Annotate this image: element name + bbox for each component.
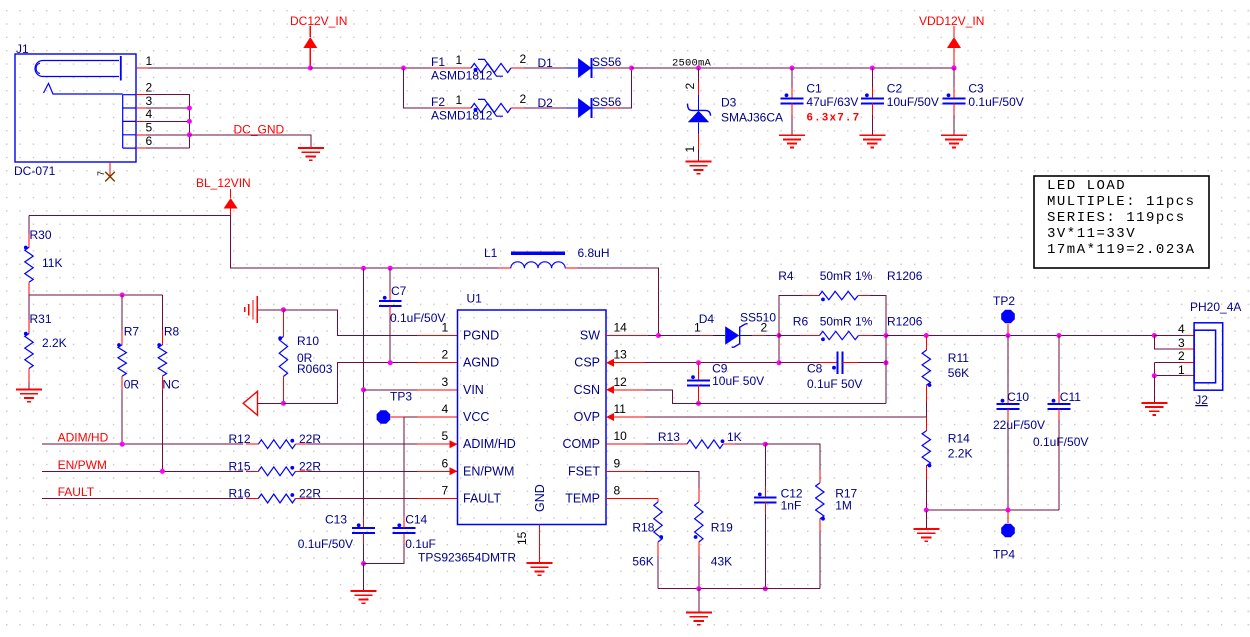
diode D2 SS56 bbox=[524, 107, 566, 109]
junction C3 on rail bbox=[952, 66, 957, 71]
junction C9 bottom bbox=[696, 401, 701, 406]
svg-text:GND: GND bbox=[533, 484, 547, 512]
wire SW to D4 bbox=[658, 335, 700, 337]
test point TP3 bbox=[377, 410, 391, 424]
op-amp U1 TPS923654DMTR body bbox=[458, 310, 607, 525]
resistor R8 NC bbox=[161, 330, 163, 345]
svg-text:C10: C10 bbox=[1007, 390, 1029, 404]
wire AGND net (R10 bottom to U1 pin2) bbox=[283, 363, 417, 404]
wire output rail bbox=[886, 335, 1154, 337]
svg-text:F1: F1 bbox=[431, 55, 445, 69]
svg-text:SERIES: 119pcs: SERIES: 119pcs bbox=[1047, 210, 1186, 226]
svg-text:56K: 56K bbox=[632, 555, 653, 569]
wire earth to R10 top bbox=[257, 309, 283, 311]
svg-text:NC: NC bbox=[162, 378, 180, 392]
svg-text:R12: R12 bbox=[229, 432, 251, 446]
svg-text:AGND: AGND bbox=[463, 356, 499, 370]
J1 pin 6 stub and wire bbox=[136, 147, 146, 149]
J1 pin 4 stub and wire bbox=[136, 120, 146, 122]
junction R14 bottom / ground bbox=[924, 508, 929, 513]
svg-text:R1206: R1206 bbox=[887, 269, 923, 283]
capacitor C8 0.1uF 50V bbox=[779, 362, 820, 364]
svg-text:ASMD1812: ASMD1812 bbox=[431, 109, 493, 123]
svg-text:C2: C2 bbox=[887, 82, 903, 96]
no-connect cross on J1 pin 7 bbox=[105, 172, 115, 182]
svg-text:0.1uF 50V: 0.1uF 50V bbox=[807, 377, 862, 391]
wire BL_12VIN rail bbox=[29, 216, 499, 269]
J1 pin 1 stub bbox=[136, 67, 148, 69]
svg-text:7: 7 bbox=[442, 484, 449, 498]
resistor R15 22R bbox=[246, 470, 258, 472]
svg-text:6.8uH: 6.8uH bbox=[578, 246, 610, 260]
wire L1 to SW bbox=[578, 268, 659, 335]
power port VDD12V_IN bbox=[953, 26, 955, 37]
U1 pin 7 stub bbox=[417, 498, 458, 500]
svg-text:3: 3 bbox=[146, 94, 153, 108]
svg-text:0.1uF/50V: 0.1uF/50V bbox=[298, 537, 353, 551]
svg-text:3: 3 bbox=[442, 375, 449, 389]
svg-text:EN/PWM: EN/PWM bbox=[58, 458, 107, 472]
resistor R30 11K bbox=[28, 216, 30, 235]
U1 pin 1 stub bbox=[417, 335, 458, 337]
junction node B bbox=[884, 333, 889, 338]
svg-text:6.3x7.7: 6.3x7.7 bbox=[806, 113, 860, 125]
ground C3 bbox=[941, 134, 967, 136]
capacitor C3 0.1uF/50V bbox=[953, 68, 955, 87]
svg-text:F2: F2 bbox=[431, 95, 445, 109]
power port DC12V_IN bbox=[309, 26, 311, 37]
junction EN/PWM bbox=[160, 469, 165, 474]
fuse F2 ASMD1812 bbox=[431, 107, 471, 109]
U1 pin 10 COMP stub bbox=[606, 443, 645, 445]
wire F2 branch down bbox=[404, 68, 432, 108]
svg-text:14: 14 bbox=[614, 321, 628, 335]
wire rail D1 junction to C3 bbox=[632, 67, 955, 69]
connector J2 PH20_4A body bbox=[1194, 323, 1223, 390]
resistor R4 50mR 1% bbox=[779, 296, 802, 336]
svg-text:SS510: SS510 bbox=[740, 311, 776, 325]
ground R31 bbox=[16, 389, 42, 391]
svg-text:EN/PWM: EN/PWM bbox=[463, 464, 514, 478]
wire J2 pin2 bbox=[1154, 361, 1182, 363]
J1 pin 5 stub and wire bbox=[136, 134, 146, 136]
svg-text:C11: C11 bbox=[1060, 390, 1081, 404]
svg-text:SS56: SS56 bbox=[592, 55, 622, 69]
svg-text:2: 2 bbox=[520, 92, 527, 106]
capacitor C11 0.1uF/50V bbox=[1058, 336, 1060, 393]
capacitor C12 1nF bbox=[764, 444, 766, 486]
junction R10 top bbox=[281, 307, 286, 312]
wire J1 pin1 to top rail bbox=[148, 67, 310, 69]
svg-text:C1: C1 bbox=[806, 82, 822, 96]
wire bottom output rail bbox=[926, 509, 1059, 511]
junction C11 top bbox=[1057, 333, 1062, 338]
svg-text:U1: U1 bbox=[467, 292, 483, 306]
junction C2 on rail bbox=[870, 66, 875, 71]
svg-text:CSP: CSP bbox=[574, 356, 600, 370]
svg-text:L1: L1 bbox=[484, 246, 498, 260]
junction C12 bottom bbox=[763, 586, 768, 591]
wire D4 to sense node A bbox=[766, 335, 779, 337]
svg-text:0.1uF/50V: 0.1uF/50V bbox=[390, 311, 445, 325]
svg-text:2: 2 bbox=[683, 83, 697, 90]
junction VIN branch on BL rail bbox=[361, 266, 366, 271]
LED LOAD note box bbox=[1034, 176, 1209, 268]
junction J1 bus pin4 bbox=[187, 119, 192, 124]
resistor R13 1K bbox=[645, 443, 674, 445]
svg-text:1: 1 bbox=[456, 93, 463, 107]
junction D3 bbox=[696, 66, 701, 71]
svg-text:FAULT: FAULT bbox=[58, 485, 95, 499]
svg-text:2: 2 bbox=[520, 52, 527, 66]
svg-text:4: 4 bbox=[442, 402, 449, 416]
U1 pin 2 stub bbox=[417, 362, 458, 364]
wire FSET to R19 bbox=[645, 471, 699, 488]
svg-text:DC_GND: DC_GND bbox=[234, 123, 285, 137]
svg-text:VCC: VCC bbox=[463, 410, 489, 424]
power arrow port at R10 bottom bbox=[243, 391, 257, 415]
svg-text:SMAJ36CA: SMAJ36CA bbox=[721, 111, 783, 125]
U1 pin 8 TEMP stub bbox=[606, 498, 645, 500]
svg-text:10: 10 bbox=[614, 429, 628, 443]
svg-text:1: 1 bbox=[146, 54, 153, 68]
wire pin2 to gnd bus bbox=[146, 95, 189, 148]
U1 pin 3 stub bbox=[417, 389, 458, 391]
wire J2 pin4 bbox=[1154, 335, 1182, 337]
junction R11 top bbox=[924, 333, 929, 338]
wire CSP row bbox=[645, 362, 779, 364]
svg-text:1nF: 1nF bbox=[781, 499, 802, 513]
svg-text:C13: C13 bbox=[325, 513, 347, 527]
svg-text:R11: R11 bbox=[948, 351, 969, 365]
ground C1 bbox=[779, 134, 805, 136]
svg-text:J2: J2 bbox=[1195, 393, 1208, 407]
junction COMP node bbox=[763, 442, 768, 447]
resistor R7 0R bbox=[121, 295, 123, 330]
net DC_GND wire bbox=[189, 135, 310, 148]
svg-text:2: 2 bbox=[1178, 349, 1185, 363]
junction ADIM/HD bbox=[120, 442, 125, 447]
svg-text:R31: R31 bbox=[30, 312, 52, 326]
svg-text:50mR 1%: 50mR 1% bbox=[820, 315, 873, 329]
resistor R19 43K bbox=[698, 488, 700, 502]
junction J2 ground node bbox=[1152, 373, 1157, 378]
capacitor C9 10uF 50V bbox=[698, 363, 700, 381]
junction VIN pin3 bbox=[361, 387, 366, 392]
wire arrow to R10 bottom bbox=[258, 402, 284, 404]
wire TP3 to U1 pin4 bbox=[391, 416, 405, 418]
svg-text:OVP: OVP bbox=[574, 410, 600, 424]
resistor R16 22R bbox=[246, 498, 258, 500]
net wire ADIM/HD bbox=[42, 443, 243, 445]
svg-text:17mA*119=2.023A: 17mA*119=2.023A bbox=[1047, 242, 1196, 258]
fuse F1 ASMD1812 bbox=[431, 67, 471, 69]
svg-text:ASMD1812: ASMD1812 bbox=[431, 69, 493, 83]
net wire FAULT bbox=[42, 498, 243, 500]
svg-text:PH20_4A: PH20_4A bbox=[1190, 300, 1241, 314]
svg-text:11K: 11K bbox=[42, 256, 62, 270]
svg-text:22uF/50V: 22uF/50V bbox=[993, 418, 1045, 432]
U1 pin 13 CSP stub with arrow bbox=[613, 362, 645, 364]
junction DC12V_IN on rail bbox=[308, 66, 313, 71]
svg-text:DC12V_IN: DC12V_IN bbox=[290, 14, 347, 28]
inductor L1 6.8uH bbox=[499, 267, 511, 269]
ground C2 bbox=[859, 134, 885, 136]
svg-text:R10: R10 bbox=[297, 334, 319, 348]
svg-text:MULTIPLE: 11pcs: MULTIPLE: 11pcs bbox=[1047, 194, 1196, 210]
resistor R10 0R R0603 bbox=[282, 310, 284, 337]
resistor R11 56K bbox=[925, 336, 927, 351]
capacitor C2 10uF/50V bbox=[871, 68, 873, 87]
junction CSP/C9 bbox=[696, 360, 701, 365]
wire J2 pin2-pin1 link bbox=[1153, 362, 1155, 375]
svg-text:4: 4 bbox=[146, 107, 153, 121]
svg-text:D3: D3 bbox=[721, 96, 737, 110]
svg-text:3: 3 bbox=[1178, 336, 1185, 350]
J1 center pin barrel symbol bbox=[35, 61, 119, 77]
wire C14 bottom to node bbox=[364, 544, 405, 564]
U1 pin 9 FSET stub bbox=[606, 470, 645, 472]
junction R19 bottom / ground bbox=[696, 586, 701, 591]
svg-text:2: 2 bbox=[442, 348, 449, 362]
ground output rail bbox=[925, 510, 927, 529]
svg-text:5: 5 bbox=[442, 429, 449, 443]
svg-text:15: 15 bbox=[515, 531, 529, 545]
J1 pin 3 stub and wire bbox=[136, 107, 146, 109]
wire D2 out up to D1 junction bbox=[618, 68, 632, 108]
svg-text:TP4: TP4 bbox=[993, 548, 1015, 562]
svg-text:0.1uF: 0.1uF bbox=[405, 537, 436, 551]
svg-text:11: 11 bbox=[614, 402, 627, 416]
junction C7 on BL rail bbox=[388, 266, 393, 271]
svg-text:2: 2 bbox=[146, 81, 153, 95]
wire VIN to U1 pin3 bbox=[364, 389, 418, 391]
svg-text:0R: 0R bbox=[124, 378, 140, 392]
svg-text:R19: R19 bbox=[711, 521, 733, 535]
svg-text:R8: R8 bbox=[164, 325, 180, 339]
ground analog rail bbox=[698, 589, 700, 613]
U1 pin 14 SW stub bbox=[606, 335, 648, 337]
wire R15 to U1 bbox=[308, 470, 417, 472]
resistor R17 1M bbox=[765, 444, 820, 470]
svg-text:PGND: PGND bbox=[463, 329, 499, 343]
junction R10 bottom bbox=[281, 401, 286, 406]
svg-text:7: 7 bbox=[96, 171, 106, 176]
wire node A down to CSP row bbox=[778, 336, 780, 363]
svg-text:43K: 43K bbox=[711, 555, 732, 569]
svg-text:BL_12VIN: BL_12VIN bbox=[196, 176, 251, 190]
svg-text:TPS923654DMTR: TPS923654DMTR bbox=[418, 551, 516, 565]
svg-text:C14: C14 bbox=[405, 513, 427, 527]
U1 pin 12 CSN stub with arrow bbox=[613, 389, 645, 391]
svg-text:R1206: R1206 bbox=[887, 315, 923, 329]
svg-text:2.2K: 2.2K bbox=[42, 336, 67, 350]
wire OVP to R11/R14 node bbox=[645, 416, 926, 418]
junction TP4 bbox=[1006, 508, 1011, 513]
svg-text:FAULT: FAULT bbox=[463, 492, 501, 506]
svg-text:1: 1 bbox=[683, 146, 697, 153]
resistor R14 2.2K bbox=[925, 417, 927, 431]
svg-text:R6: R6 bbox=[793, 315, 809, 329]
svg-text:R0603: R0603 bbox=[297, 362, 333, 376]
TP4 stub bbox=[1007, 510, 1009, 523]
svg-text:TEMP: TEMP bbox=[565, 492, 600, 506]
svg-text:SS56: SS56 bbox=[592, 95, 622, 109]
svg-text:2: 2 bbox=[761, 321, 768, 335]
svg-text:VDD12V_IN: VDD12V_IN bbox=[919, 14, 984, 28]
wire R13 to COMP node bbox=[735, 443, 765, 445]
wire R30/R31 node bbox=[29, 294, 162, 296]
svg-text:1M: 1M bbox=[835, 499, 852, 513]
capacitor C1 47uF/63V bbox=[791, 68, 793, 87]
wire J2 pin3 bbox=[1154, 336, 1182, 349]
junction CSP/A bbox=[777, 360, 782, 365]
svg-text:1: 1 bbox=[456, 53, 463, 67]
svg-text:2500mA: 2500mA bbox=[672, 58, 712, 70]
wire R12 to U1 bbox=[308, 443, 417, 445]
svg-text:FSET: FSET bbox=[568, 464, 600, 478]
svg-text:R18: R18 bbox=[632, 521, 654, 535]
TP2 stub bbox=[1007, 324, 1009, 336]
resistor R6 50mR 1% bbox=[779, 335, 800, 337]
junction D1/D2 bbox=[629, 66, 634, 71]
junction C13/C14 ground node bbox=[361, 561, 366, 566]
junction J1 bus pin5 bbox=[187, 132, 192, 137]
svg-text:COMP: COMP bbox=[563, 437, 601, 451]
ground J2 bbox=[1153, 376, 1155, 403]
svg-text:R14: R14 bbox=[948, 432, 970, 446]
svg-text:VIN: VIN bbox=[463, 383, 484, 397]
svg-text:10uF 50V: 10uF 50V bbox=[712, 374, 764, 388]
svg-text:56K: 56K bbox=[948, 366, 969, 380]
ground C13/C14 bbox=[363, 564, 365, 592]
svg-text:6: 6 bbox=[442, 456, 449, 470]
svg-text:C7: C7 bbox=[391, 284, 407, 298]
svg-text:5: 5 bbox=[146, 121, 153, 135]
J1 pin 2 stub bbox=[136, 94, 146, 96]
connector J1 (DC-071 barrel jack) body bbox=[15, 54, 136, 162]
junction SW node bbox=[656, 333, 661, 338]
svg-text:6: 6 bbox=[146, 134, 153, 148]
wire analog bottom rail bbox=[658, 588, 820, 590]
capacitor C10 22uF/50V bbox=[1007, 336, 1009, 393]
wire D1 out to junction bbox=[618, 67, 632, 69]
svg-text:D4: D4 bbox=[699, 312, 715, 326]
resistor R18 56K bbox=[654, 502, 662, 542]
ground (rotated) at R10 top bbox=[256, 296, 258, 323]
wire J2 pin1 bbox=[1154, 375, 1182, 377]
junction C7/AGND bbox=[388, 360, 393, 365]
svg-text:1: 1 bbox=[1178, 363, 1185, 377]
J1 spring contact bbox=[44, 83, 123, 94]
junction J2 feed bbox=[1152, 333, 1157, 338]
capacitor C14 0.1uF bbox=[403, 533, 405, 544]
svg-text:1: 1 bbox=[442, 321, 449, 335]
U1 pin 6 stub with arrow bbox=[417, 470, 458, 472]
U1 pin 5 stub with arrow bbox=[417, 443, 458, 445]
wire R8 branch bbox=[161, 295, 163, 330]
ground U1 pin15 bbox=[527, 562, 553, 564]
junction C8/B bbox=[884, 360, 889, 365]
svg-text:ADIM/HD: ADIM/HD bbox=[58, 431, 109, 445]
svg-text:R13: R13 bbox=[658, 430, 680, 444]
U1 pin 11 OVP stub with arrow bbox=[613, 416, 645, 418]
ground D3 bbox=[686, 161, 712, 163]
svg-text:TP2: TP2 bbox=[993, 294, 1015, 308]
svg-text:C8: C8 bbox=[807, 362, 823, 376]
svg-text:8: 8 bbox=[614, 484, 621, 498]
U1 pin 15 stub bbox=[539, 525, 541, 564]
J1 pin contact stack bbox=[123, 95, 136, 148]
wire top rail to F1 bbox=[310, 67, 431, 69]
svg-text:TP3: TP3 bbox=[390, 390, 412, 404]
junction J1 bus pin3 bbox=[187, 106, 192, 111]
svg-text:CSN: CSN bbox=[574, 383, 600, 397]
svg-text:9: 9 bbox=[614, 456, 621, 470]
svg-text:10uF/50V: 10uF/50V bbox=[887, 95, 939, 109]
svg-text:50mR 1%: 50mR 1% bbox=[820, 269, 873, 283]
wire PGND net (R10 top to U1 pin1) bbox=[283, 310, 417, 336]
svg-text:DC-071: DC-071 bbox=[14, 164, 56, 178]
svg-text:ADIM/HD: ADIM/HD bbox=[463, 437, 516, 451]
junction F2 branch bbox=[401, 66, 406, 71]
resistor R31 2.2K bbox=[28, 295, 30, 320]
svg-text:C3: C3 bbox=[968, 82, 984, 96]
svg-text:3V*11=33V: 3V*11=33V bbox=[1047, 226, 1136, 242]
junction R7 branch bbox=[120, 293, 125, 298]
junction C1 on rail bbox=[790, 66, 795, 71]
diode D4 SS510 bbox=[700, 335, 713, 337]
wire TEMP to R18 bbox=[645, 498, 658, 500]
svg-text:SW: SW bbox=[580, 329, 600, 343]
wire CSN row to node B bbox=[645, 390, 886, 404]
wire node B down bbox=[885, 336, 887, 404]
wire VIN vertical down to C13 bbox=[363, 268, 365, 516]
svg-text:J1: J1 bbox=[16, 42, 29, 56]
test point TP2 bbox=[1001, 310, 1015, 324]
junction VDD12V_IN / C3 bbox=[952, 66, 957, 71]
svg-text:4: 4 bbox=[1178, 322, 1185, 336]
svg-text:12: 12 bbox=[614, 375, 628, 389]
svg-text:13: 13 bbox=[614, 348, 628, 362]
svg-text:LED LOAD: LED LOAD bbox=[1047, 178, 1126, 194]
ground DC_GND bbox=[298, 147, 324, 149]
svg-text:R30: R30 bbox=[30, 228, 52, 242]
svg-text:R7: R7 bbox=[124, 325, 140, 339]
diode D1 SS56 bbox=[524, 67, 566, 69]
svg-text:2.2K: 2.2K bbox=[948, 447, 973, 461]
svg-text:47uF/63V: 47uF/63V bbox=[806, 95, 858, 109]
wire R16 to U1 bbox=[308, 498, 417, 500]
svg-text:R15: R15 bbox=[229, 459, 251, 473]
junction TP2/C10 bbox=[1006, 333, 1011, 338]
svg-text:R4: R4 bbox=[778, 269, 794, 283]
capacitor C13 0.1uF/50V bbox=[363, 516, 365, 528]
junction node A bbox=[777, 333, 782, 338]
capacitor C7 0.1uF/50V bbox=[389, 268, 391, 290]
diode D3 SMAJ36CA (TVS) bbox=[698, 68, 700, 82]
test point TP4 bbox=[1001, 524, 1015, 538]
U1 pin 4 stub bbox=[417, 416, 458, 418]
svg-text:1: 1 bbox=[694, 321, 701, 335]
svg-text:0.1uF/50V: 0.1uF/50V bbox=[968, 95, 1023, 109]
svg-text:1K: 1K bbox=[727, 430, 742, 444]
svg-text:0.1uF/50V: 0.1uF/50V bbox=[1033, 435, 1088, 449]
J1 no-connect pin 7 stub bbox=[109, 162, 111, 177]
resistor R12 22R bbox=[246, 443, 258, 445]
net wire EN/PWM bbox=[42, 470, 243, 472]
svg-text:R16: R16 bbox=[229, 487, 251, 501]
